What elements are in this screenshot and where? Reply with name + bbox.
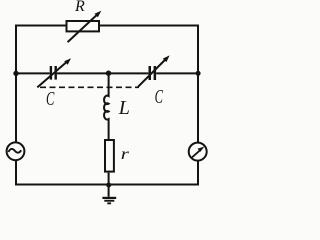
svg-text:r: r [121,145,130,163]
svg-text:L: L [118,97,130,119]
svg-text:C: C [155,85,164,108]
svg-text:C: C [46,87,55,110]
svg-text:R: R [74,0,85,15]
